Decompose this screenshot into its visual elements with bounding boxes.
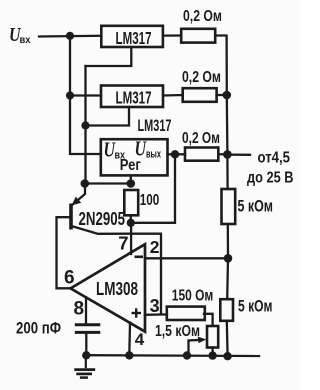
svg-text:вх: вх — [20, 34, 31, 46]
wire: resistor1 right lead and right rail top — [215, 36, 227, 96]
transistor Q1 emitter arrowhead — [72, 197, 82, 206]
junction dot: right rail at pin2 feedback — [224, 254, 233, 263]
junction dot: Рег pin / resistor 100 top — [127, 179, 136, 188]
junction dot: box2 input — [66, 91, 74, 99]
svg-text:0,2 Ом: 0,2 Ом — [183, 8, 222, 25]
svg-text:4: 4 — [135, 330, 145, 349]
wire: transistor collector run — [73, 227, 161, 315]
svg-text:3: 3 — [150, 296, 160, 316]
svg-text:LM308: LM308 — [96, 279, 138, 299]
wire: right rail segment 2 — [226, 95, 229, 189]
svg-text:LM317: LM317 — [116, 88, 152, 108]
transistor Q1 2N2905 base bar — [69, 204, 73, 230]
svg-text:5 кОм: 5 кОм — [238, 197, 274, 216]
wire: Рег pin of box3 — [130, 176, 132, 184]
wire: resistor2 right lead — [217, 94, 227, 96]
svg-text:150 Ом: 150 Ом — [172, 287, 214, 304]
svg-text:вых: вых — [146, 149, 162, 161]
wire: right rail segment 3 — [227, 224, 229, 258]
svg-text:5 кОм: 5 кОм — [238, 297, 273, 316]
capacitor C1 200 пФ plates — [75, 325, 101, 333]
resistor 5 кОм lower — [220, 299, 233, 321]
wire: op-amp pin 3 stub — [145, 313, 167, 316]
junction dot: ground rail at capacitor — [82, 351, 90, 359]
wire: op-amp pin 4 lead — [128, 323, 131, 356]
junction dot: right rail at output — [223, 150, 232, 159]
wire: box2 ADJ routing — [86, 107, 130, 126]
op-amp U4 LM308 triangle — [71, 244, 146, 331]
wire: capacitor to ground rail — [85, 334, 87, 355]
wire: left input rail — [70, 36, 101, 154]
junction dot: ground rail at wiper — [183, 351, 191, 359]
junction dot: ground rail at pin4 — [125, 351, 133, 359]
wire: op-amp pin 7 supply — [130, 223, 132, 254]
svg-text:LM317: LM317 — [116, 28, 152, 48]
wire: right rail segment 4 — [226, 258, 229, 299]
resistor 5 кОм upper — [222, 189, 236, 224]
svg-text:0,2 Ом: 0,2 Ом — [182, 130, 220, 147]
svg-text:1,5 кОм: 1,5 кОм — [155, 323, 200, 340]
svg-text:6: 6 — [64, 268, 75, 289]
junction dot: input node at Uвх — [66, 32, 74, 40]
regulator U3 LM317 box (Uвх/Uвых/Рег) — [101, 139, 168, 175]
resistor 0,2 Ом #3 — [185, 148, 218, 161]
junction dot: ground rail at right rail — [223, 352, 231, 360]
wire: emitter lead — [72, 184, 85, 206]
svg-text:7: 7 — [118, 233, 128, 254]
wire: right rail segment 5 — [226, 321, 229, 356]
resistor 100 — [124, 190, 138, 215]
wire: 150 Ом to trimmer top — [204, 314, 213, 326]
junction dot: resistor 100 bottom / pin7 — [127, 219, 135, 227]
regulator U1 LM317 box — [101, 26, 163, 47]
wire: resistor 100 bottom to output sense — [131, 154, 175, 223]
wire: trimmer wiper stub — [189, 340, 199, 355]
wire: resistor3 right lead — [218, 153, 227, 155]
junction dot: right rail at resistor2 — [223, 91, 232, 100]
svg-text:2: 2 — [150, 237, 160, 257]
wire: resistor2 left lead — [163, 94, 183, 97]
resistor 150 Ом — [167, 307, 205, 320]
junction dot: emitter / Рег rail — [81, 179, 90, 188]
wire: bottom ground rail — [86, 354, 259, 357]
wire: resistor1 left lead — [163, 34, 181, 36]
regulator U2 LM317 box — [101, 86, 163, 108]
svg-text:2N2905: 2N2905 — [79, 208, 126, 229]
ground symbol — [74, 355, 95, 377]
wire: op-amp pin 2 to right rail — [145, 257, 228, 259]
label Uвх (input voltage) — [9, 25, 31, 46]
junction dot: ADJ rail / box2 adj — [81, 121, 89, 129]
wire: ADJ rail — [84, 66, 86, 184]
wire: output line — [227, 153, 250, 155]
trimmer wiper arrowhead — [198, 337, 207, 344]
svg-text:100: 100 — [140, 192, 160, 209]
resistor 0,2 Ом #2 — [183, 88, 217, 102]
wire: base lead to op-amp output — [57, 217, 72, 288]
wire: Рег horizontal — [86, 182, 131, 184]
svg-text:до 25 В: до 25 В — [247, 170, 294, 187]
junction dot: ground rail at trimmer — [208, 351, 216, 359]
svg-text:LM317: LM317 — [138, 116, 172, 135]
resistor 0,2 Ом #1 — [181, 29, 215, 43]
svg-text:8: 8 — [74, 298, 85, 319]
trimmer resistor 1,5 кОм box — [207, 326, 218, 348]
svg-text:Рег: Рег — [120, 157, 141, 174]
svg-text:200 пФ: 200 пФ — [16, 320, 61, 338]
svg-text:0,2 Ом: 0,2 Ом — [182, 69, 221, 86]
wire: trimmer bottom lead — [211, 348, 213, 357]
junction dot: output sense at box3 output — [171, 150, 179, 158]
svg-text:от4,5: от4,5 — [258, 149, 291, 166]
wire: Uвх input lead — [39, 35, 101, 38]
wire: op-amp pin 8 lead — [85, 298, 87, 324]
op-amp plus sign — [132, 308, 142, 317]
op-amp minus sign — [135, 255, 144, 258]
wire: box3 output — [168, 153, 186, 155]
wire: box2 input — [70, 94, 101, 96]
wire: box1 ADJ routing — [86, 47, 132, 66]
